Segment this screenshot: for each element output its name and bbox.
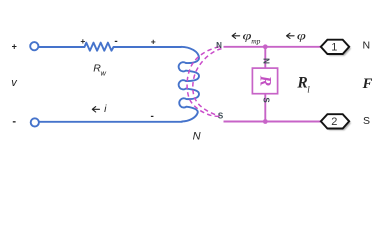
svg-text:N: N [193,131,201,143]
svg-text:+: + [80,36,85,46]
svg-text:N: N [363,40,371,52]
svg-text:2: 2 [331,116,337,128]
svg-text:1: 1 [331,41,337,53]
svg-text:mp: mp [251,37,260,46]
svg-text:-: - [151,111,154,122]
svg-text:S: S [363,115,370,127]
svg-text:-: - [12,116,16,128]
svg-text:+: + [12,41,17,51]
svg-text:N: N [262,58,271,64]
svg-text:l: l [307,85,310,95]
svg-text:i: i [104,103,107,115]
svg-text:N: N [216,41,222,50]
svg-text:v: v [11,77,18,89]
svg-text:+: + [151,37,156,47]
svg-text:w: w [100,68,106,77]
svg-text:F: F [362,76,373,92]
svg-text:R: R [257,75,274,87]
svg-text:φ: φ [297,30,306,43]
svg-text:S: S [262,97,271,103]
svg-text:-: - [114,36,117,47]
svg-text:S: S [218,111,224,120]
svg-text:R: R [296,75,307,92]
